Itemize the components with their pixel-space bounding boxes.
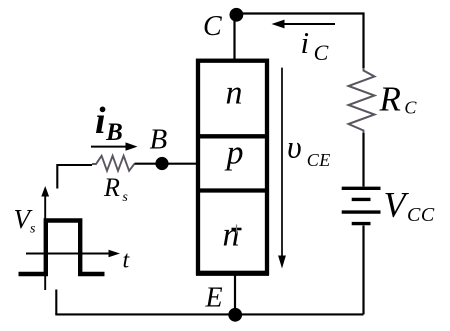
source waveform vertical axis (up arrow): [41, 186, 49, 290]
battery VCC plate short: [352, 198, 371, 201]
region n+ label: [223, 217, 242, 254]
wire: battery down to bottom rail: [362, 226, 364, 315]
transistor body outline: [198, 61, 267, 273]
battery VCC plate long bottom: [342, 210, 381, 213]
wire: C node down to transistor box top: [233, 15, 235, 62]
resistor RC (vertical zigzag): [349, 68, 375, 133]
svg-text:n: n: [226, 75, 243, 112]
source pulse waveform: [19, 221, 105, 275]
resistor Rs (horizontal zigzag): [92, 156, 135, 171]
battery VCC plate long top: [342, 187, 381, 190]
svg-text:C: C: [203, 11, 222, 42]
node C: [230, 8, 244, 22]
battery VCC plate short bottom: [352, 222, 371, 225]
svg-text:p: p: [225, 134, 244, 171]
wire: RC to battery: [362, 133, 364, 187]
wire top: collector node to right rail, down to RC: [242, 14, 364, 69]
node B: [155, 157, 168, 170]
svg-text:n: n: [223, 217, 240, 254]
current arrow iB (pointing right): [91, 142, 138, 150]
wire: Rs to base node B: [135, 163, 197, 165]
current arrow iC (pointing left): [272, 20, 336, 29]
svg-text:E: E: [205, 283, 223, 314]
p/n+ junction line: [196, 188, 269, 192]
n/p junction line: [196, 134, 269, 138]
voltage arrow vCE (down): [278, 68, 286, 269]
wire: left corner to Rs: [57, 165, 92, 189]
node E: [228, 308, 242, 322]
wire: transistor box bottom to E node: [234, 273, 236, 314]
wire bottom rail: [55, 313, 363, 315]
wire: bottom-left riser: [55, 290, 57, 315]
source waveform horizontal axis (right arrow, t): [26, 250, 120, 257]
svg-text:B: B: [150, 124, 168, 156]
